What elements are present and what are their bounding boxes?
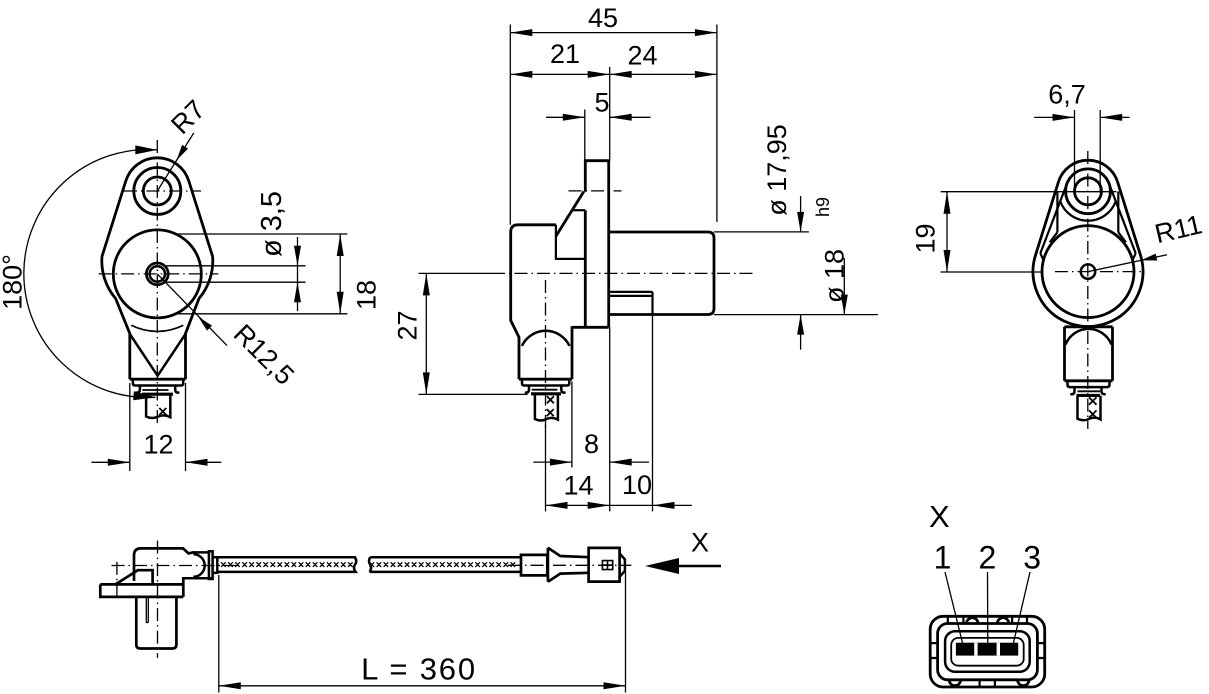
assembly boss cylinder — [136, 598, 176, 649]
pin leader 1 — [945, 572, 964, 647]
dimension 18 line and arrows — [339, 234, 341, 314]
assembly cable hatch x marks row 1 — [221, 562, 515, 567]
dimension dia 3,5 arrows — [297, 237, 299, 311]
dimension 5 extension line — [584, 110, 586, 161]
center view cable stub with break — [535, 394, 558, 420]
svg-text:ø 17,95: ø 17,95 — [762, 124, 792, 216]
right view horizontal centerline — [1055, 271, 1142, 273]
center view extension line left x510 — [509, 25, 511, 225]
dimension 18 extension lines — [175, 233, 348, 235]
dimension 5 line and arrows — [546, 116, 585, 118]
pinout pins black bar — [956, 643, 1018, 656]
pin leader 2 — [987, 572, 989, 647]
assembly ear diagonal — [116, 570, 139, 584]
dimension L line and arrows — [219, 685, 626, 687]
dimension 8 line and arrows — [533, 461, 572, 463]
dimension dia 17,95 arrows — [800, 196, 802, 232]
center view extension line right x717 — [716, 25, 718, 223]
left view gland clamp ring — [142, 393, 173, 396]
pinout top bumps — [967, 618, 1009, 624]
right view cable stub with break — [1078, 396, 1101, 421]
svg-text:h9: h9 — [813, 197, 833, 217]
pinout bottom bumps — [949, 680, 1029, 686]
assembly connector latch window — [602, 561, 612, 570]
right view gland clamp ring — [1077, 394, 1101, 397]
svg-text:14: 14 — [563, 471, 593, 501]
svg-text:19: 19 — [911, 223, 941, 253]
svg-text:8: 8 — [584, 429, 599, 459]
right view mounting hole inner circle dia 6,7 — [1075, 178, 1102, 205]
assembly gland flange — [209, 551, 213, 579]
assembly cable segment 2 — [369, 557, 520, 572]
right view mounting hole counterbore circle — [1066, 169, 1111, 214]
svg-text:3: 3 — [1023, 539, 1041, 575]
left view mounting hole inner circle — [143, 177, 171, 205]
boss bottom edge extension — [714, 314, 878, 316]
view arrow X — [645, 558, 679, 574]
dimension dia 3,5 extension lines — [166, 265, 306, 267]
svg-text:27: 27 — [393, 310, 423, 340]
leader R12,5 — [157, 274, 227, 346]
left view main horizontal centerline — [99, 273, 219, 275]
svg-text:ø 3,5: ø 3,5 — [256, 191, 288, 257]
center view flange front face below tab — [584, 210, 587, 327]
right view inner rim arc — [1040, 253, 1135, 286]
assembly gland bushing — [213, 557, 218, 573]
assembly cable segment 1 — [217, 557, 356, 572]
pinout shroud — [945, 631, 1030, 672]
svg-text:X: X — [691, 528, 709, 558]
svg-text:21: 21 — [550, 39, 580, 69]
svg-text:L = 360: L = 360 — [361, 651, 477, 686]
assembly envelope lines to gland — [182, 552, 213, 578]
pinout shell tick marks — [930, 616, 1044, 687]
assembly connector nose — [619, 553, 625, 578]
center view body bottom edge and neck right — [572, 326, 609, 379]
180 degree swivel arc — [24, 150, 157, 398]
boss top edge extension — [714, 231, 809, 233]
dimension 21 24 line — [510, 73, 717, 75]
left view gland clamp upper edge — [142, 389, 168, 391]
assembly horizontal centerline — [112, 565, 237, 567]
center view body notch lines — [556, 225, 585, 259]
assembly sensor body block — [134, 548, 193, 581]
assembly connector housing — [589, 548, 620, 582]
center view flange tab — [585, 161, 608, 328]
svg-text:ø 18: ø 18 — [820, 249, 850, 303]
center view cable hatch x marks — [547, 396, 554, 403]
pinout outer shell — [930, 616, 1044, 687]
assembly connector ferrule — [521, 555, 547, 576]
right view body outline teardrop — [1033, 160, 1143, 326]
left view vertical centerline — [156, 140, 158, 424]
center view ear step — [572, 209, 586, 211]
svg-text:1: 1 — [934, 539, 952, 575]
right view inner wall tangent left — [1040, 183, 1067, 253]
left view cable gland — [130, 378, 186, 381]
svg-text:6,7: 6,7 — [1048, 80, 1086, 110]
right view vertical centerline — [1087, 151, 1089, 429]
svg-text:24: 24 — [627, 41, 657, 71]
center view gland clamp upper edge — [532, 389, 558, 391]
right view gland clamp upper edge — [1078, 390, 1101, 392]
center view boss slot — [609, 292, 653, 315]
right view dome arc — [1066, 329, 1112, 345]
svg-text:2: 2 — [979, 539, 997, 575]
svg-text:5: 5 — [594, 88, 609, 118]
right view neck — [1065, 327, 1113, 381]
center view body outline — [511, 225, 556, 379]
left view mounting hole outer circle R7 — [134, 168, 181, 215]
left view shallow bottom arc of main radius — [131, 325, 183, 331]
left view nose cone V — [130, 334, 186, 376]
right view center hole — [1081, 264, 1095, 278]
leader R7 — [157, 133, 194, 191]
assembly ear centerline — [116, 562, 118, 600]
dimension 27 line and arrows — [425, 273, 427, 394]
left view center hole outer circle — [146, 263, 168, 285]
assembly boss centerline — [157, 541, 159, 658]
dimension 6,7 line and arrows — [1034, 116, 1074, 118]
right view cable hatch x marks — [1089, 397, 1097, 405]
center view gland clamp ring — [531, 392, 561, 395]
right view inner wall tangent right — [1109, 183, 1136, 253]
left view body outline teardrop — [102, 158, 213, 379]
dimension 12 line and arrows — [92, 461, 130, 463]
right view cable gland — [1065, 379, 1113, 382]
center view ear diagonal — [556, 192, 584, 237]
left view main boss circle — [113, 230, 201, 318]
left view center hole inner circle dia 3.5 — [150, 266, 165, 281]
center view vertical axis centerline — [545, 280, 547, 430]
dimension L extension lines — [218, 575, 220, 693]
assembly boss slot — [146, 598, 148, 623]
center extension line x609 upper — [609, 67, 611, 161]
pinout inner cavity — [951, 638, 1024, 666]
dimension 19 reference lines — [941, 191, 1117, 193]
center view horizontal centerline — [419, 272, 493, 274]
center view mounting hole centerline — [569, 190, 622, 192]
dimension 27 extension line bottom — [419, 393, 528, 395]
assembly ear step — [137, 570, 153, 584]
bottom dims extension lines — [545, 425, 547, 512]
center view boss cylinder — [609, 232, 714, 315]
leader R11 — [1088, 255, 1167, 272]
svg-text:45: 45 — [588, 3, 618, 33]
right view counterbore contour — [1050, 192, 1126, 243]
center view cable gland — [519, 378, 572, 381]
right view main boss circle — [1042, 226, 1134, 318]
left view mounting hole horizontal centerline — [124, 190, 201, 192]
dimension 45 line — [510, 32, 717, 34]
dimension 6,7 extension lines — [1074, 110, 1076, 193]
assembly connector boot — [548, 548, 589, 582]
dimension 12 extension lines — [129, 383, 131, 471]
assembly flange plate — [100, 578, 183, 597]
svg-text:180°: 180° — [0, 254, 28, 310]
left view cable stub with break — [146, 394, 170, 418]
svg-text:X: X — [929, 499, 950, 534]
svg-text:10: 10 — [622, 470, 652, 500]
dimension 14 10 line and arrows — [546, 504, 692, 506]
center view dome arc — [522, 331, 570, 346]
dimension 19 line and arrows — [946, 192, 948, 272]
left view cable hatch x — [159, 408, 166, 415]
pinout inner shell — [938, 624, 1038, 680]
assembly dome arc — [193, 554, 204, 577]
svg-text:18: 18 — [352, 280, 382, 310]
svg-text:12: 12 — [143, 430, 173, 460]
dimension dia 18 arrow — [843, 258, 845, 315]
pin leader 3 — [1013, 572, 1031, 647]
